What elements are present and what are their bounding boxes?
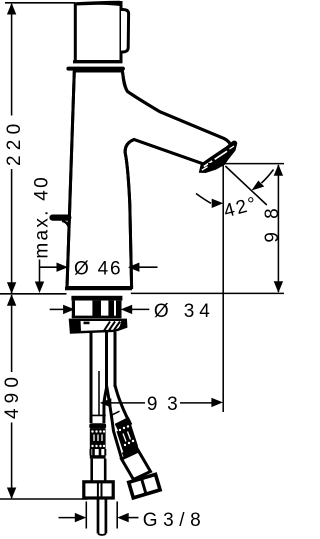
svg-text:Ø 34: Ø 34 (154, 301, 215, 322)
svg-text:220: 220 (4, 119, 25, 166)
svg-text:9 8: 9 8 (262, 204, 283, 242)
svg-text:G3/8: G3/8 (143, 510, 207, 531)
svg-text:max. 40: max. 40 (32, 175, 53, 259)
svg-text:Ø 46: Ø 46 (74, 259, 122, 280)
svg-text:9 3: 9 3 (147, 394, 180, 415)
svg-text:490: 490 (2, 372, 23, 419)
